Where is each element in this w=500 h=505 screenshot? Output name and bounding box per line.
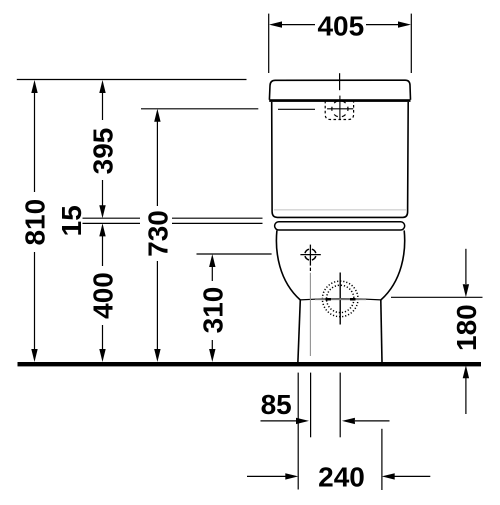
bowl rim bead: [275, 222, 405, 230]
dim 405 arrows: [269, 21, 282, 27]
dim 180 upper line: [465, 249, 467, 284]
svg-text:240: 240: [318, 462, 365, 493]
dim 810 arrows: [31, 80, 37, 93]
dim 810 line: [34, 91, 36, 352]
svg-text:180: 180: [451, 304, 482, 351]
bowl bottom edge: [300, 299, 381, 300]
outlet dotted outer circle: [322, 281, 358, 317]
extension line 730 seg2: [278, 108, 315, 110]
dim 310 arrows: [209, 254, 215, 267]
svg-text:395: 395: [88, 128, 119, 175]
tank body faint inner line: [274, 209, 406, 211]
svg-text:405: 405: [317, 10, 364, 41]
svg-text:15: 15: [56, 205, 87, 236]
dim 400 arrows: [99, 223, 105, 236]
svg-text:310: 310: [198, 287, 229, 334]
flush button dashed circle: [332, 101, 348, 117]
tank centerline tick: [339, 73, 341, 90]
extension line 730 seg1: [141, 108, 258, 110]
svg-text:810: 810: [20, 199, 51, 246]
dim 405 line: [280, 24, 400, 26]
dim 85 right line + arrow: [355, 420, 390, 422]
fixing hole centerline grey: [309, 273, 311, 356]
dim 730 line: [156, 120, 158, 352]
pedestal right edge: [381, 300, 382, 362]
dim 180 up arrow: [463, 365, 469, 378]
fixing hole centerline dash: [309, 268, 311, 271]
dim 395 line: [102, 91, 104, 207]
tank lid bottom joint line: [269, 99, 410, 102]
extension line 180: [391, 296, 483, 298]
bowl left outline: [276, 230, 300, 300]
outlet dark segment left: [326, 298, 332, 301]
ext below floor outlet center: [339, 373, 341, 438]
extension line 15 upper: [83, 217, 263, 219]
extension line top (total height): [17, 79, 247, 81]
dim 180 down arrow: [463, 284, 469, 297]
ext below floor pedestal right: [381, 429, 383, 490]
ext below floor fixing line: [310, 373, 312, 438]
outlet horizontal centerline grey: [315, 298, 366, 300]
dim 730 arrows: [154, 109, 160, 122]
fixing hole dashed circle: [305, 249, 316, 260]
dim 180 lower line: [465, 378, 467, 414]
svg-text:85: 85: [261, 389, 292, 420]
dim 310 line: [211, 266, 213, 352]
dim 395 arrows: [99, 80, 105, 93]
flush button dashed outline: [325, 101, 353, 120]
dim 240 left line + arrow: [247, 475, 286, 477]
flush button crosshair: [327, 108, 353, 110]
outlet dotted inner circle: [327, 285, 354, 312]
dim 405 ext right: [410, 14, 412, 73]
tank lid outline: [269, 80, 410, 100]
svg-text:730: 730: [143, 210, 174, 257]
svg-text:400: 400: [88, 272, 119, 319]
tank body outline: [272, 102, 409, 217]
dim 240 right line + arrow: [395, 475, 431, 477]
extension line 15 lower: [83, 222, 263, 224]
outlet vertical centerline: [339, 273, 341, 325]
fixing hole crosshair: [300, 254, 320, 256]
bowl right outline: [381, 230, 405, 300]
dim 85 left line + arrow: [261, 420, 297, 422]
outlet dark segment right: [350, 298, 356, 301]
floor line: [18, 362, 482, 366]
ext below floor pedestal left: [297, 373, 299, 490]
pedestal left edge: [298, 300, 300, 362]
extension line 310: [197, 253, 272, 255]
dim 405 ext left: [268, 14, 270, 73]
dim 400 line: [102, 236, 104, 352]
